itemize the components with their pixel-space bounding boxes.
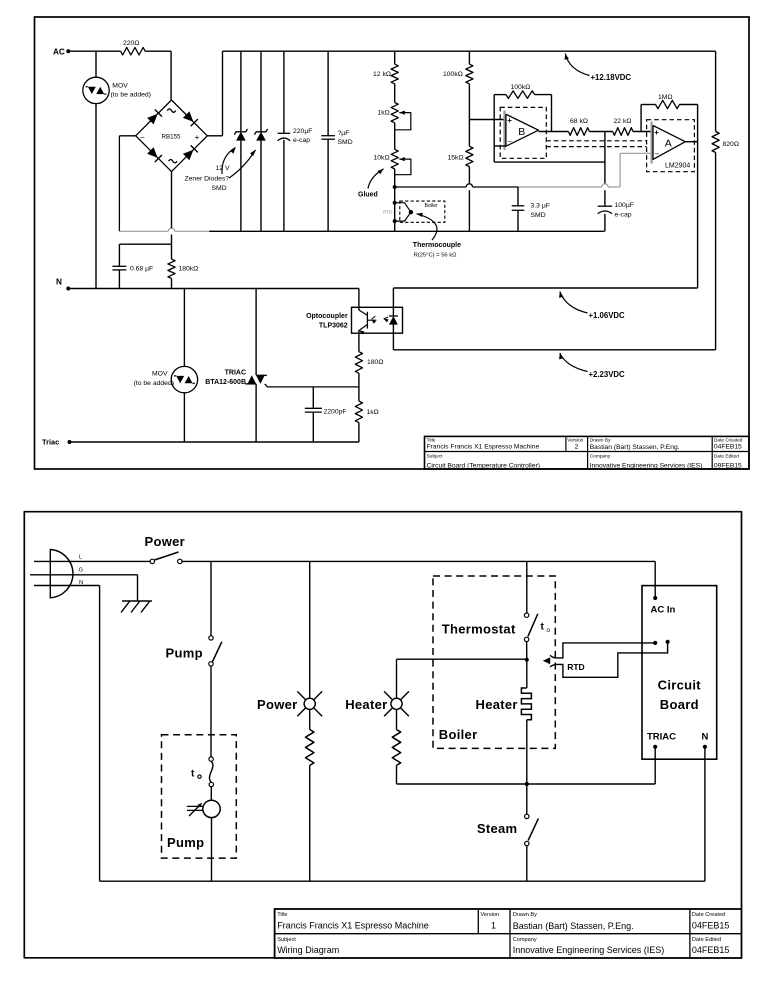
wire: 12k to 1k pot — [394, 84, 396, 103]
svg-text:1MΩ: 1MΩ — [658, 94, 673, 101]
svg-text:Company: Company — [590, 454, 611, 460]
svg-text:e-cap: e-cap — [615, 211, 632, 218]
svg-text:−: − — [140, 133, 145, 142]
svg-text:820Ω: 820Ω — [723, 141, 739, 148]
wire: +1.06VDC net from LED anode to opamp A output — [393, 287, 697, 289]
wire: neutral from plug down and along bottom rail to Circuit Board N — [50, 585, 99, 587]
plug prong L — [34, 560, 50, 562]
wire: sensor bus from pots node to opamp A minus input with hops — [395, 186, 467, 188]
svg-text:Drawn By: Drawn By — [513, 912, 537, 918]
svg-text:0.68 µF: 0.68 µF — [130, 266, 153, 273]
resistor 15k (divider bottom) — [466, 146, 473, 166]
svg-text:3.3 µF: 3.3 µF — [531, 203, 550, 210]
svg-text:04FEB15: 04FEB15 — [692, 921, 730, 931]
pump motor — [210, 787, 212, 800]
svg-text:Zener Diodes?: Zener Diodes? — [185, 176, 230, 183]
svg-text:−: − — [508, 137, 513, 146]
wire: MOV branch from AC down to N rail — [95, 51, 97, 77]
resistor 68k — [568, 128, 589, 136]
svg-text:220Ω: 220Ω — [123, 40, 139, 47]
wire: divider mid node to opamp B plus input — [468, 84, 470, 147]
svg-text:Boiler: Boiler — [425, 203, 439, 209]
optocoupler phototransistor — [358, 307, 360, 310]
bottom schematic border frame — [24, 512, 741, 958]
capacitor 220uF e-cap branch — [283, 51, 285, 133]
svg-text:LM2904: LM2904 — [665, 163, 690, 170]
op-amp A (2/2 LM2904) — [650, 122, 652, 164]
svg-text:Power: Power — [145, 534, 186, 549]
svg-text:+12.18VDC: +12.18VDC — [591, 73, 632, 82]
wire: LED cathode down to +2.23V line — [392, 333, 394, 350]
wire: opto emitter to 180R — [358, 333, 360, 352]
svg-text:RTD: RTD — [383, 209, 393, 214]
capacitor 0.68uF — [112, 265, 126, 267]
wire: 68k to 22k with tap node — [589, 131, 612, 133]
optocoupler TLP3062 box — [352, 307, 403, 333]
svg-text:Subject: Subject — [427, 454, 444, 460]
svg-text:Version: Version — [567, 437, 583, 443]
svg-text:SMD: SMD — [531, 212, 546, 219]
boiler dashed outline (top schematic) — [400, 201, 445, 222]
svg-text:100kΩ: 100kΩ — [443, 71, 463, 78]
svg-text:Circuit Board (Temperature Con: Circuit Board (Temperature Controller) — [427, 462, 540, 469]
svg-text:+: + — [195, 132, 200, 142]
resistor 100k opamp B feedback — [494, 94, 506, 96]
svg-text:180kΩ: 180kΩ — [179, 266, 199, 273]
svg-text:Company: Company — [513, 937, 537, 943]
svg-text:TLP3062: TLP3062 — [319, 323, 348, 330]
svg-text:Date Created: Date Created — [714, 437, 743, 443]
wire: thermostat branch from L rail — [526, 561, 528, 613]
svg-text:e-cap: e-cap — [293, 137, 310, 144]
svg-text:1: 1 — [491, 921, 496, 931]
resistor 180R — [355, 352, 362, 374]
svg-text:2200pF: 2200pF — [324, 408, 347, 415]
zener diode 12V #2 with branch from rail to ground bus — [260, 51, 262, 132]
wire: DC ground bus (bridge negative rail) with hop over bridge AC return — [119, 230, 168, 232]
resistor 100k (divider top) — [466, 64, 473, 84]
wire: AC input to 220R and corner down to bridge — [68, 50, 120, 52]
resistor 220R — [121, 47, 146, 55]
svg-text:R(25°C) = 56 kΩ: R(25°C) = 56 kΩ — [414, 252, 458, 258]
svg-text:RTD: RTD — [567, 662, 584, 672]
svg-text:?µF: ?µF — [338, 130, 350, 137]
wire: Triac rail — [70, 441, 359, 443]
circuit board box — [642, 586, 717, 760]
svg-text:SMD: SMD — [212, 185, 227, 192]
bridge diode D4 (bottom vertex to right vertex) — [183, 150, 194, 161]
svg-text:2: 2 — [575, 444, 579, 451]
wire: opamp B feedback node to minus input — [493, 95, 495, 163]
svg-text:RB155: RB155 — [162, 134, 181, 141]
bridge diode D2 (top vertex to right vertex) — [183, 111, 194, 122]
svg-text:Heater: Heater — [476, 697, 518, 712]
potentiometer 10k glued with wiper shorted — [391, 149, 398, 169]
svg-text:Triac: Triac — [42, 438, 59, 447]
svg-text:15kΩ: 15kΩ — [448, 155, 464, 162]
capacitor 2200pF gate filter — [312, 387, 314, 408]
wire: +2.23VDC net to 820R — [393, 349, 715, 351]
svg-text:Pump: Pump — [167, 835, 204, 850]
svg-text:N: N — [56, 278, 62, 287]
wire: ground lead from plug — [50, 574, 137, 576]
svg-text:SMD: SMD — [338, 139, 353, 146]
varistor MOV2 (to be added) — [171, 366, 197, 392]
svg-text:Circuit: Circuit — [658, 678, 702, 693]
resistor 12k — [391, 64, 398, 84]
wire: TRIAC branch from N rail — [255, 289, 257, 376]
resistor power lamp ballast — [306, 730, 314, 766]
zener diode 12V #1 with branch from rail to ground bus — [240, 51, 242, 132]
op-amp A dashed package outline — [647, 120, 695, 172]
svg-text:100kΩ: 100kΩ — [511, 84, 531, 91]
resistor 22k — [613, 128, 633, 136]
svg-text:o: o — [547, 627, 551, 634]
wire: sensor chain branch from rail — [394, 51, 396, 64]
bridge AC marks and polarity signs — [167, 109, 175, 112]
svg-text:(to be added): (to be added) — [111, 92, 151, 99]
wire: 180R to gate node — [358, 373, 360, 401]
svg-text:AC In: AC In — [651, 605, 676, 616]
svg-text:Date Created: Date Created — [692, 912, 725, 918]
wire: power lamp branch from L rail to bottom rail — [309, 561, 311, 698]
resistor 820R from +12V rail — [715, 51, 717, 131]
capacitor 100uF e-cap — [598, 205, 612, 207]
svg-text:B: B — [518, 126, 525, 138]
wire: feedback tap down to opamp B minus net and 100uF — [604, 132, 606, 184]
svg-text:Optocoupler: Optocoupler — [306, 313, 348, 320]
pump dashed enclosure — [162, 735, 237, 858]
svg-text:TRIAC: TRIAC — [647, 732, 676, 743]
svg-text:Bastian (Bart) Stassen, P.Eng.: Bastian (Bart) Stassen, P.Eng. — [513, 921, 634, 931]
svg-text:Wiring Diagram: Wiring Diagram — [277, 945, 339, 955]
svg-text:Power: Power — [257, 697, 298, 712]
svg-text:Subject: Subject — [277, 937, 296, 943]
wire: line L from plug to Power switch — [50, 560, 150, 562]
svg-text:Innovative Engineering Service: Innovative Engineering Services (IES) — [513, 945, 665, 955]
wire: pump branch from L rail — [210, 561, 212, 635]
op-amp B dashed package outline — [500, 107, 546, 158]
title block (top schematic) — [425, 436, 750, 469]
svg-text:Francis Francis X1 Espresso Ma: Francis Francis X1 Espresso Machine — [427, 444, 540, 451]
wire: bridge bottom AC terminal down to N rail with hop over ground bus — [171, 172, 173, 229]
wire: triac to Triac rail — [255, 384, 257, 442]
wire: thermostat to heater node A — [526, 642, 528, 660]
svg-text:22 kΩ: 22 kΩ — [614, 118, 632, 125]
thermocouple RTD probe fork — [395, 203, 411, 213]
svg-text:AC: AC — [53, 48, 65, 57]
optocoupler LED — [392, 307, 394, 316]
wire: 0.68uF branch from bridge return — [119, 243, 171, 245]
svg-text:Bastian (Bart) Stassen, P.Eng.: Bastian (Bart) Stassen, P.Eng. — [590, 444, 680, 451]
svg-text:Title: Title — [277, 912, 287, 918]
thermal cutout t0 in pump — [209, 757, 213, 761]
resistor 1M opamp A feedback — [640, 105, 642, 132]
svg-text:Innovative Engineering Service: Innovative Engineering Services (IES) — [590, 462, 703, 469]
svg-text:BTA12-600B: BTA12-600B — [205, 379, 246, 386]
plug prong G — [30, 574, 50, 576]
wire: steam branch from node B — [526, 784, 528, 814]
svg-text:04FEB15: 04FEB15 — [714, 444, 742, 451]
svg-text:Version: Version — [481, 912, 500, 918]
svg-text:Date Edited: Date Edited — [714, 454, 739, 460]
svg-text:Steam: Steam — [477, 821, 518, 836]
svg-text:−: − — [655, 150, 660, 159]
wire: 1k pot to 10k pot — [394, 123, 396, 150]
resistor heater lamp ballast — [392, 730, 400, 766]
dashed link between op-amp packages LM2904 — [546, 140, 646, 142]
svg-text:Francis Francis X1 Espresso Ma: Francis Francis X1 Espresso Machine — [277, 921, 429, 931]
wire: heater node B line to Circuit Board TRIAC pin — [397, 783, 656, 785]
mains plug symbol — [50, 550, 73, 598]
svg-text:MOV: MOV — [112, 83, 128, 90]
svg-text:+2.23VDC: +2.23VDC — [589, 370, 626, 379]
triac BTA12-600B — [248, 375, 257, 384]
wire: bridge minus output loop to DC ground bus — [119, 135, 135, 137]
svg-text:Thermocouple: Thermocouple — [413, 242, 461, 249]
wire: MOV2 branch from N rail to Triac rail — [183, 289, 185, 367]
svg-text:12 kΩ: 12 kΩ — [373, 71, 391, 78]
bridge diode D1 (left vertex to top vertex) — [147, 114, 158, 125]
svg-text:1kΩ: 1kΩ — [378, 110, 390, 117]
svg-text:+1.06VDC: +1.06VDC — [589, 311, 626, 320]
bridge rectifier RB155 diamond — [136, 100, 208, 172]
op-amp B (1/2 LM2904) — [503, 111, 505, 151]
wire: steam switch to bottom rail — [526, 846, 528, 882]
wire: opamp A output node down to +1.06V line — [685, 141, 697, 143]
svg-text:Drawn By: Drawn By — [590, 437, 611, 443]
svg-text:G: G — [79, 568, 84, 574]
heating element Heater coil — [526, 659, 528, 688]
svg-text:Pump: Pump — [166, 646, 203, 661]
svg-text:+: + — [507, 116, 512, 125]
svg-text:Board: Board — [660, 697, 699, 712]
wire: 15k bottom crossing sensor bus with hop down to ground bus — [468, 167, 470, 184]
svg-text:TRIAC: TRIAC — [225, 370, 246, 377]
potentiometer 1k with wiper shorted — [391, 103, 398, 123]
resistor 1k to Triac rail — [355, 401, 362, 423]
svg-text:N: N — [702, 732, 709, 743]
boiler dashed enclosure — [433, 576, 555, 748]
RTD probe (wiring diagram) — [543, 657, 550, 664]
svg-text:1kΩ: 1kΩ — [367, 409, 379, 416]
wire: +12.18V top rail — [223, 50, 716, 52]
wire: N pin down to bottom rail — [704, 747, 706, 881]
capacitor ?uF SMD branch — [327, 51, 329, 136]
svg-text:180Ω: 180Ω — [367, 359, 383, 366]
svg-text:MOV: MOV — [152, 370, 168, 377]
wire: L rail from Power switch to Circuit Board AC In — [182, 560, 655, 562]
capacitor 3.3uF SMD — [517, 187, 519, 206]
wire: 22k to opamp A plus input — [633, 131, 653, 133]
title block (wiring diagram) — [275, 909, 742, 958]
wire: divider branch from rail at 100k — [468, 51, 470, 64]
svg-text:04FEB15: 04FEB15 — [692, 945, 730, 955]
svg-text:220µF: 220µF — [293, 128, 312, 135]
wire: heater lamp branch parallel to heater — [396, 659, 398, 698]
svg-text:+: + — [654, 128, 659, 137]
svg-text:Boiler: Boiler — [439, 727, 478, 742]
top schematic border frame — [35, 17, 750, 469]
svg-text:A: A — [665, 137, 672, 149]
svg-text:Glued: Glued — [358, 192, 378, 199]
varistor MOV (to be added) — [83, 77, 109, 103]
wire: sensor node vertical down to ground bus with junctions — [394, 169, 396, 231]
wire: pump switch to thermal cutout — [210, 666, 212, 757]
plug prong N — [34, 585, 50, 587]
svg-text:Thermostat: Thermostat — [442, 622, 516, 637]
wire: N rail to optocoupler transistor — [68, 288, 359, 290]
wire: opamp B output to 68k — [539, 131, 569, 133]
svg-text:Title: Title — [427, 437, 436, 443]
svg-text:Date Edited: Date Edited — [692, 937, 721, 943]
svg-text:100µF: 100µF — [615, 202, 634, 209]
svg-text:(to be added): (to be added) — [134, 380, 174, 387]
wire: bridge plus output riser to +12V rail — [207, 135, 222, 137]
earth ground symbol — [122, 600, 152, 602]
resistor 180k to N rail — [168, 259, 175, 278]
svg-text:10kΩ: 10kΩ — [374, 155, 390, 162]
wire: triac gate to 180R/1k node — [265, 384, 359, 387]
svg-text:09FEB15: 09FEB15 — [714, 462, 742, 469]
svg-text:Heater: Heater — [345, 697, 387, 712]
bridge diode D3 (left vertex to bottom vertex) — [147, 147, 158, 158]
svg-text:68 kΩ: 68 kΩ — [570, 118, 588, 125]
